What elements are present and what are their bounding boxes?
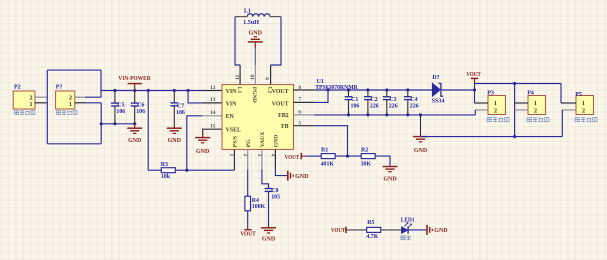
svg-text:R5: R5 bbox=[367, 220, 374, 226]
svg-text:R1: R1 bbox=[321, 147, 328, 153]
svg-text:R3: R3 bbox=[161, 162, 168, 168]
svg-text:2: 2 bbox=[69, 95, 72, 101]
capacitor C3 leads bbox=[386, 90, 388, 97]
svg-text:C1: C1 bbox=[351, 97, 358, 103]
svg-text:EN: EN bbox=[226, 114, 235, 120]
junction FB node bbox=[346, 155, 349, 158]
svg-text:226: 226 bbox=[389, 103, 398, 109]
connector P3 description 电池接口 bbox=[487, 118, 509, 122]
svg-text:P2: P2 bbox=[14, 85, 21, 91]
P3 pin 1 stub bbox=[475, 102, 489, 104]
resistor R5 bbox=[367, 227, 381, 232]
wire R4 to VOUT port bbox=[247, 211, 249, 230]
capacitor C6 leads bbox=[134, 91, 136, 104]
P5 pin 2 stub bbox=[562, 109, 576, 111]
junction bottom rail P4 bbox=[513, 135, 516, 138]
svg-text:R2: R2 bbox=[361, 147, 368, 153]
svg-text:PG: PG bbox=[246, 139, 252, 147]
resistor R4 bbox=[245, 196, 251, 211]
wire EN branch vertical bbox=[186, 116, 188, 170]
svg-text:GND: GND bbox=[295, 174, 309, 180]
svg-text:2: 2 bbox=[494, 108, 497, 114]
svg-text:VOUT: VOUT bbox=[285, 154, 300, 161]
svg-text:VOUT: VOUT bbox=[331, 227, 346, 234]
svg-text:C7: C7 bbox=[177, 104, 184, 110]
wire VOUT port to R1 bbox=[301, 155, 306, 157]
wire L1 right vertical bbox=[271, 17, 281, 65]
ground tap on FB2 rail bbox=[420, 115, 422, 137]
wire bottom ground rail bbox=[421, 136, 563, 138]
svg-text:1: 1 bbox=[494, 101, 497, 107]
svg-text:4: 4 bbox=[270, 154, 276, 157]
ground under C8 bbox=[261, 227, 276, 229]
svg-text:226: 226 bbox=[370, 103, 379, 109]
U1 pin 3 stub bbox=[261, 149, 263, 169]
junction rail C4 bbox=[406, 88, 409, 91]
P? pin 2 bbox=[75, 96, 85, 98]
svg-text:R4: R4 bbox=[252, 198, 259, 204]
junction FB2 rail C2 bbox=[366, 113, 369, 116]
wire FB2 rail bbox=[314, 114, 475, 116]
power port VOUT bottom bbox=[244, 229, 251, 231]
ground port at LED bbox=[426, 225, 428, 235]
connector P4 bbox=[528, 96, 546, 115]
svg-text:15: 15 bbox=[210, 124, 216, 130]
svg-text:1: 1 bbox=[534, 101, 537, 107]
svg-text:P4: P4 bbox=[527, 91, 534, 97]
capacitor C1 bbox=[345, 96, 353, 98]
wire VIN to R3 branch vertical bbox=[147, 91, 149, 171]
junction rail C1 bbox=[347, 88, 350, 91]
wire node vertical to VIN rail bbox=[100, 70, 102, 97]
svg-text:4.7K: 4.7K bbox=[366, 234, 378, 240]
op-amp U1 TPS63070RNMR body bbox=[222, 85, 294, 150]
junction lower rail at C6 bbox=[133, 122, 136, 125]
svg-text:13: 13 bbox=[210, 97, 216, 103]
LED LED1 bbox=[402, 227, 408, 233]
svg-text:100K: 100K bbox=[252, 204, 266, 210]
inductor L1 bbox=[247, 14, 270, 17]
svg-text:106: 106 bbox=[136, 109, 145, 115]
connector P2 bbox=[13, 91, 35, 109]
wire LED1 to ground port bbox=[408, 229, 427, 231]
svg-text:P?: P? bbox=[56, 85, 63, 91]
svg-text:C5: C5 bbox=[117, 103, 124, 109]
U1 pin 10 stub bbox=[254, 65, 256, 85]
ground at R2 bbox=[383, 166, 398, 168]
svg-text:3: 3 bbox=[256, 154, 262, 157]
svg-text:106: 106 bbox=[176, 110, 185, 116]
junction FB2 rail GND tap bbox=[419, 113, 422, 116]
wire P2 loop vertical bbox=[46, 70, 48, 144]
svg-text:VOUT: VOUT bbox=[272, 101, 289, 107]
capacitor C5 bbox=[111, 102, 119, 104]
svg-text:1: 1 bbox=[582, 101, 585, 107]
svg-text:1: 1 bbox=[69, 102, 72, 108]
capacitor C5 leads bbox=[114, 91, 116, 104]
svg-text:C8: C8 bbox=[271, 188, 278, 194]
junction lower rail at C5 bbox=[113, 122, 116, 125]
svg-text:L2: L2 bbox=[266, 87, 272, 94]
svg-text:2: 2 bbox=[30, 95, 33, 101]
svg-text:2: 2 bbox=[582, 108, 585, 114]
svg-text:401K: 401K bbox=[321, 162, 335, 168]
P4 pin 1 stub bbox=[515, 102, 528, 104]
connector P? description 电池接口 bbox=[57, 111, 78, 115]
junction rail C3 bbox=[385, 88, 388, 91]
svg-text:11: 11 bbox=[235, 75, 241, 80]
junction VIN at C6 bbox=[133, 89, 136, 92]
U1 pin 11 stub bbox=[239, 65, 241, 85]
junction VOUT node bbox=[473, 88, 476, 91]
svg-text:P3: P3 bbox=[487, 91, 494, 97]
ground port at pin4 bbox=[287, 171, 289, 181]
svg-text:VOUT: VOUT bbox=[240, 231, 256, 238]
svg-text:30K: 30K bbox=[361, 162, 372, 168]
svg-text:LED1: LED1 bbox=[401, 218, 415, 224]
wire VOUT node vertical to P3 bbox=[474, 84, 476, 104]
wire D? cathode to VOUT node bbox=[442, 89, 475, 91]
resistor R3 bbox=[161, 168, 175, 173]
wire P2 loop top bbox=[47, 69, 101, 71]
wire P2 loop bottom bbox=[47, 143, 101, 145]
svg-text:C4: C4 bbox=[410, 97, 417, 103]
wire C8 to ground bbox=[268, 191, 270, 227]
svg-text:2: 2 bbox=[242, 154, 248, 157]
junction FB2 rail C1 bbox=[347, 113, 350, 116]
junction rail C2 bbox=[366, 88, 369, 91]
wire P3 pin2 down to FB2 rail bbox=[474, 110, 476, 115]
svg-text:FB: FB bbox=[281, 124, 289, 130]
ground under C7 bbox=[167, 127, 182, 129]
svg-text:7: 7 bbox=[298, 97, 301, 103]
wire L1 left vertical bbox=[235, 17, 240, 65]
capacitor C7 leads bbox=[173, 91, 175, 103]
svg-text:GND: GND bbox=[249, 31, 263, 37]
svg-text:L1: L1 bbox=[236, 87, 242, 94]
svg-text:VIN: VIN bbox=[226, 89, 238, 95]
wire P5 pin2 down bbox=[561, 110, 563, 137]
wire VOUT top distribution bbox=[475, 83, 562, 85]
wire pin13 branch bbox=[188, 91, 202, 103]
svg-text:C3: C3 bbox=[389, 97, 396, 103]
capacitor C3 bbox=[383, 96, 391, 98]
capacitor C6 bbox=[131, 102, 139, 104]
capacitor C2 bbox=[364, 96, 372, 98]
wire pin1 corner bbox=[233, 169, 235, 172]
svg-text:VOUT: VOUT bbox=[466, 71, 481, 78]
svg-text:P5: P5 bbox=[575, 92, 582, 98]
junction VIN at pin13 branch bbox=[187, 89, 190, 92]
junction VIN at C5 bbox=[113, 89, 116, 92]
P5 pin 1 stub bbox=[561, 102, 576, 104]
svg-text:VIN: VIN bbox=[226, 101, 238, 107]
connector P2 description 电池接口 bbox=[15, 111, 36, 115]
capacitor C7 bbox=[170, 102, 178, 104]
P4 pin 2 stub bbox=[515, 109, 528, 111]
junction P4 branch bbox=[513, 82, 516, 85]
svg-text:VIN-POWER: VIN-POWER bbox=[118, 75, 151, 82]
svg-text:GND: GND bbox=[434, 228, 448, 234]
U1 pin 2 stub bbox=[247, 149, 249, 169]
svg-text:106: 106 bbox=[351, 103, 360, 109]
U1 pin 9 stub bbox=[270, 65, 272, 85]
capacitor C4 leads bbox=[407, 90, 409, 97]
svg-text:GND: GND bbox=[414, 148, 428, 154]
svg-text:L1: L1 bbox=[244, 9, 251, 15]
svg-text:1.5uH: 1.5uH bbox=[243, 20, 259, 26]
svg-text:2: 2 bbox=[534, 108, 537, 114]
wire VIN rail bbox=[101, 90, 202, 92]
svg-text:226: 226 bbox=[410, 103, 419, 109]
ground at VSEL bbox=[195, 137, 210, 139]
wire pin15 VSEL to ground bbox=[203, 129, 222, 137]
svg-text:SS34: SS34 bbox=[432, 98, 445, 104]
wire pin7 up to rail bbox=[314, 90, 328, 102]
junction R3/EN bbox=[185, 169, 188, 172]
wire pin4 to ground port bbox=[275, 170, 287, 176]
svg-text:12: 12 bbox=[210, 85, 216, 91]
capacitor C1 leads bbox=[348, 90, 350, 97]
svg-text:FB2: FB2 bbox=[278, 113, 289, 119]
junction FB2 rail C3 bbox=[385, 113, 388, 116]
svg-text:C6: C6 bbox=[137, 103, 144, 109]
wire P4 branch vertical bbox=[514, 84, 516, 137]
wire EN branch to pin14 bbox=[187, 115, 202, 117]
wire VOUT to R5 bbox=[346, 229, 367, 231]
svg-text:106: 106 bbox=[116, 109, 125, 115]
junction VIN at EN/R3 branch bbox=[147, 89, 150, 92]
ground under C6 bbox=[134, 124, 136, 128]
U1 pin 5 stub bbox=[294, 125, 315, 127]
P3 pin 2 stub bbox=[475, 109, 488, 111]
U1 pin 6 stub bbox=[294, 114, 315, 116]
capacitor C2 leads bbox=[367, 90, 369, 97]
svg-text:14: 14 bbox=[210, 110, 216, 116]
svg-text:VSEL: VSEL bbox=[226, 128, 241, 134]
svg-text:1: 1 bbox=[30, 102, 33, 108]
junction lower rail at P? branch bbox=[100, 122, 103, 125]
U1 pin 4 stub bbox=[274, 149, 276, 169]
svg-text:GND: GND bbox=[274, 135, 280, 147]
wire L1 left bbox=[235, 16, 247, 18]
svg-text:PGND: PGND bbox=[251, 87, 257, 103]
wire R3 right to U1 pin1 bbox=[175, 169, 234, 171]
resistor R1 bbox=[321, 154, 335, 159]
wire pin2 to R4 bbox=[247, 170, 249, 197]
wire L1 right bbox=[270, 16, 281, 18]
power ground PGND above pin10 bbox=[248, 41, 263, 43]
wire R1 to R2 bbox=[335, 155, 361, 157]
P? pin 1 bbox=[75, 102, 85, 104]
wire lower rail bbox=[101, 123, 135, 125]
U1 pin 14 stub bbox=[202, 115, 222, 117]
svg-text:105: 105 bbox=[271, 194, 280, 200]
svg-text:GND: GND bbox=[196, 149, 210, 155]
svg-text:GND: GND bbox=[383, 177, 397, 183]
svg-text:VOUT: VOUT bbox=[272, 89, 289, 95]
svg-text:10: 10 bbox=[250, 74, 256, 80]
svg-text:PS/S: PS/S bbox=[233, 136, 239, 147]
diode D? SS34 bbox=[432, 83, 440, 96]
U1 pin 13 stub bbox=[202, 102, 222, 104]
svg-text:VAUX: VAUX bbox=[260, 132, 266, 147]
capacitor C4 bbox=[404, 96, 412, 98]
wire R2 to ground bbox=[375, 156, 390, 166]
svg-text:D?: D? bbox=[432, 75, 439, 81]
connector P5 bbox=[576, 96, 594, 115]
junction VIN at C7 bbox=[173, 89, 176, 92]
U1 pin 12 stub bbox=[202, 90, 222, 92]
svg-text:GND: GND bbox=[168, 138, 182, 144]
wire VOUT rail bbox=[314, 89, 432, 91]
junction pin7/rail bbox=[326, 88, 329, 91]
connector P4 description 电池接口 bbox=[527, 118, 549, 122]
svg-text:GND: GND bbox=[262, 236, 276, 242]
svg-text:GND: GND bbox=[128, 138, 142, 144]
U1 pin 7 stub bbox=[294, 101, 315, 103]
U1 pin 8 stub bbox=[294, 89, 315, 91]
resistor R2 bbox=[361, 154, 375, 159]
svg-text:9: 9 bbox=[265, 77, 271, 80]
wire P? pin1 to lower rail bbox=[85, 102, 101, 104]
connector P3 bbox=[488, 96, 506, 115]
wire pin3 to C8 bbox=[262, 170, 269, 189]
connector P5 description 电池接口 bbox=[575, 118, 597, 122]
wire to R3 left bbox=[148, 169, 161, 171]
value 红色 bbox=[401, 236, 411, 240]
capacitor C8 bbox=[265, 188, 273, 190]
svg-text:1: 1 bbox=[228, 154, 234, 157]
svg-text:10k: 10k bbox=[161, 174, 171, 180]
svg-text:C2: C2 bbox=[371, 97, 378, 103]
wire P5 pin1 branch bbox=[560, 84, 562, 104]
connector P? bbox=[56, 91, 75, 109]
wire P? pin2 to node bbox=[85, 96, 101, 98]
junction FB2 rail C4 bbox=[406, 113, 409, 116]
U1 pin 1 stub bbox=[233, 149, 235, 169]
wire R5 to LED1 bbox=[381, 229, 402, 231]
P2 pin 2 bbox=[35, 96, 47, 98]
P2 pin 1 bbox=[35, 102, 47, 104]
wire FB to divider bbox=[314, 126, 347, 157]
